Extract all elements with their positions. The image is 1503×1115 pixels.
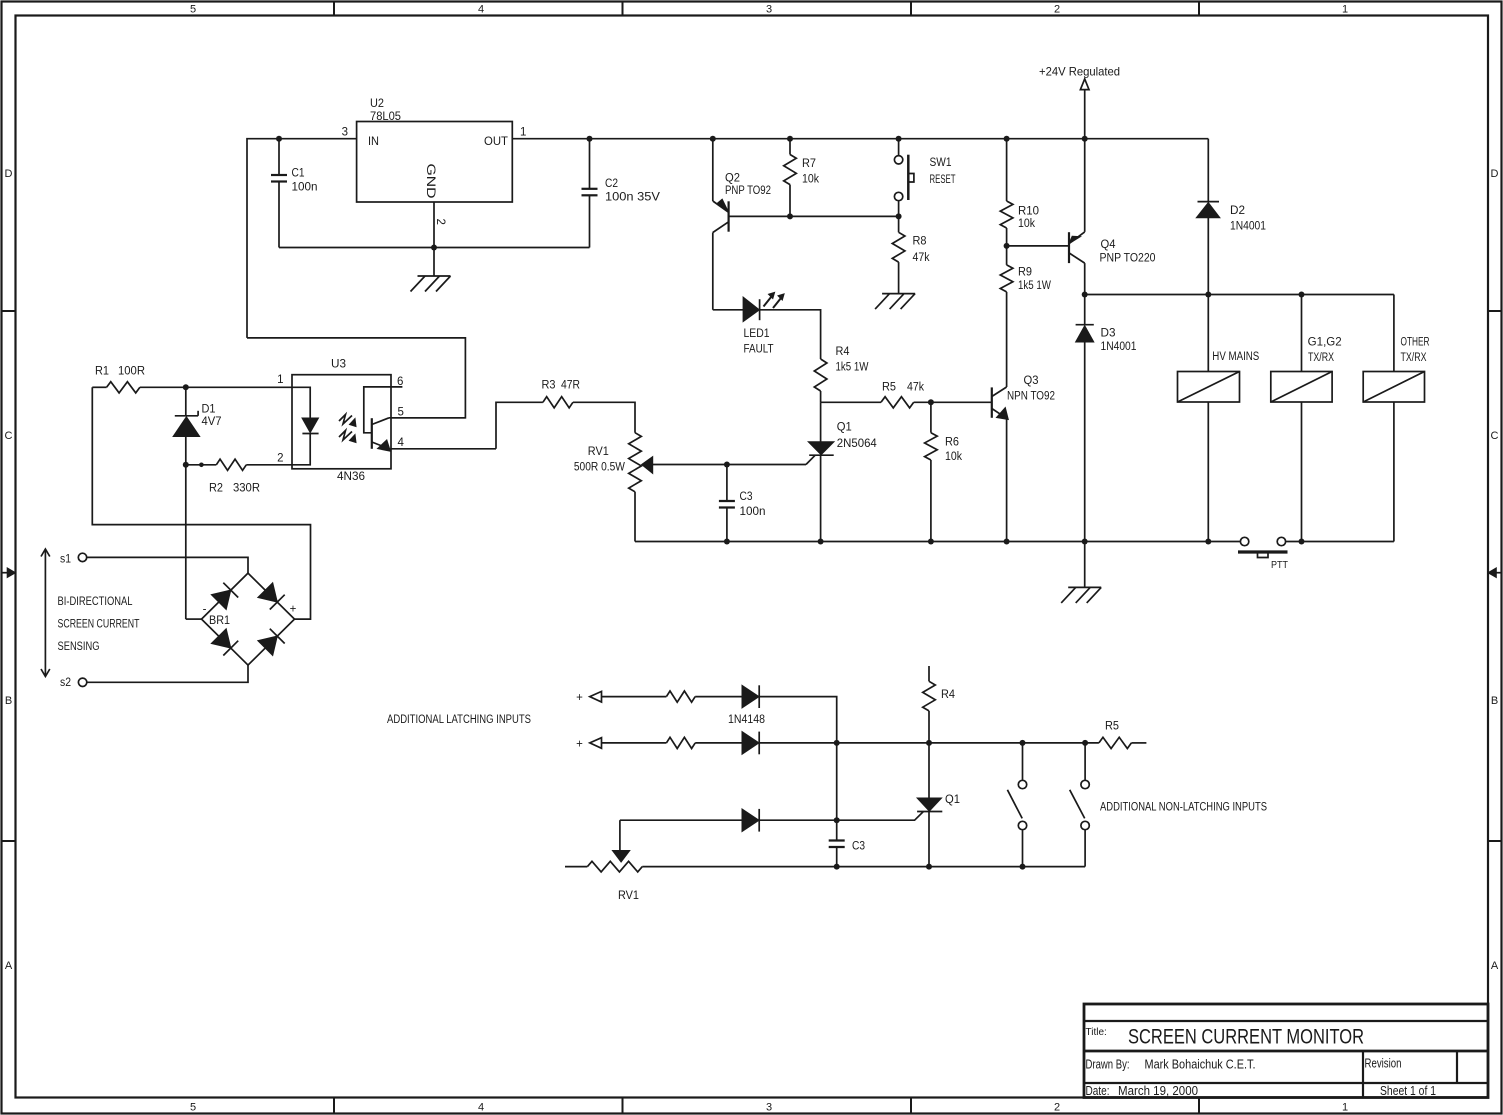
- svg-text:3: 3: [766, 4, 772, 16]
- resistor R1: [92, 386, 106, 388]
- svg-text:47k: 47k: [913, 252, 930, 264]
- svg-text:R1: R1: [95, 365, 109, 377]
- potentiometer RV1 500R: [629, 433, 642, 492]
- ground at U2: [418, 275, 451, 277]
- svg-text:R10: R10: [1018, 206, 1039, 218]
- wire bridge - to D1 line: [186, 618, 202, 620]
- junction +24V/rail: [1082, 136, 1088, 142]
- input 2 wire: [602, 742, 667, 744]
- potentiometer RV1 (latch): [565, 866, 587, 868]
- diode input 3: [742, 809, 759, 832]
- svg-text:C3: C3: [740, 491, 753, 503]
- row3 gate wire: [620, 812, 924, 821]
- frame zone dividers top: [333, 2, 335, 16]
- svg-text:s2: s2: [60, 677, 71, 689]
- svg-text:5: 5: [190, 4, 196, 16]
- svg-text:78L05: 78L05: [370, 111, 401, 123]
- diode D3 1N4001: [1076, 324, 1094, 326]
- svg-text:D: D: [5, 168, 13, 180]
- wire s1 to bridge top: [87, 557, 248, 573]
- bottom sub rail: [642, 866, 1085, 868]
- wire R5 to Q3 base: [914, 401, 992, 403]
- resistor R4 (latch): [928, 666, 930, 681]
- svg-text:3: 3: [766, 1102, 772, 1114]
- junction R10/rail: [1004, 136, 1010, 142]
- junction row3/bus: [834, 817, 840, 823]
- svg-text:RV1: RV1: [588, 446, 609, 458]
- junction R6 top: [928, 399, 934, 405]
- svg-text:A: A: [1491, 960, 1499, 972]
- junction switch1 top: [1020, 740, 1026, 746]
- svg-text:2N5064: 2N5064: [837, 438, 878, 450]
- wire Q4 collector down: [1084, 263, 1086, 325]
- svg-text:47k: 47k: [907, 382, 924, 394]
- svg-text:+: +: [290, 604, 297, 616]
- wire relay feed: [1085, 294, 1394, 296]
- junction R10/R9/Q4 base: [1004, 243, 1010, 249]
- U3 pin1 wire: [186, 386, 292, 388]
- resistor R3: [543, 397, 573, 408]
- resistor R4: [814, 359, 827, 391]
- junction dots bottom rail: [724, 539, 730, 545]
- switch PTT: [1240, 537, 1248, 545]
- resistor R6: [930, 402, 932, 432]
- bottom rail left segment: [635, 541, 1240, 543]
- relay OTHER TX/RX: [1393, 295, 1395, 372]
- svg-text:Date:: Date:: [1086, 1084, 1110, 1098]
- svg-text:s1: s1: [60, 554, 71, 566]
- vertical bus row1-row3: [836, 743, 838, 820]
- wire ground return C1-C2: [279, 247, 590, 249]
- LED1 light arrows: [764, 297, 772, 307]
- capacitor C3: [726, 465, 728, 502]
- regulator U2 box: [357, 122, 513, 203]
- svg-text:A: A: [5, 960, 13, 972]
- svg-text:Revision: Revision: [1365, 1057, 1402, 1071]
- svg-text:Sheet 1 of 1: Sheet 1 of 1: [1380, 1084, 1436, 1098]
- wire U2 OUT to rail: [512, 138, 1208, 140]
- svg-text:B: B: [1491, 695, 1498, 707]
- input 1 wire: [602, 696, 667, 698]
- diode D2 1N4001: [1207, 139, 1209, 202]
- svg-text:4V7: 4V7: [202, 416, 222, 428]
- svg-text:1k5 1W: 1k5 1W: [836, 362, 869, 374]
- svg-text:4: 4: [478, 1102, 484, 1114]
- svg-text:SCREEN CURRENT MONITOR: SCREEN CURRENT MONITOR: [1128, 1025, 1364, 1049]
- svg-text:U3: U3: [331, 359, 346, 371]
- svg-text:1N4001: 1N4001: [1230, 221, 1266, 233]
- BR1 diode lower-right: [258, 636, 278, 655]
- svg-text:10k: 10k: [802, 174, 819, 186]
- junction D3/bottom rail: [1082, 539, 1088, 545]
- junction SW1/R8/base: [896, 213, 902, 219]
- junction R7/base wire: [787, 213, 793, 219]
- wire to ground below rail: [1084, 542, 1086, 588]
- frame zone dividers right: [1488, 310, 1502, 312]
- resistor R7: [789, 139, 791, 155]
- svg-text:D2: D2: [1230, 205, 1245, 217]
- junction Q2/rail: [710, 136, 716, 142]
- svg-text:NPN TO92: NPN TO92: [1007, 390, 1055, 402]
- switch SW1 RESET: [898, 139, 900, 156]
- junction R7/rail: [787, 136, 793, 142]
- wire U2 collector feed to opto collector (pin5): [247, 338, 465, 418]
- ground at R8: [882, 293, 915, 295]
- title block: [1084, 1004, 1488, 1098]
- svg-text:R5: R5: [1105, 721, 1119, 733]
- svg-text:R4: R4: [941, 689, 956, 701]
- +24V power arrow: [1080, 79, 1089, 90]
- svg-text:RV1: RV1: [618, 890, 639, 902]
- svg-text:2: 2: [277, 453, 283, 465]
- U3 pin 5 wire: [389, 417, 465, 419]
- frame centering arrow right: [1496, 572, 1501, 574]
- svg-text:1k5 1W: 1k5 1W: [1018, 280, 1051, 292]
- svg-text:R6: R6: [945, 437, 959, 449]
- wire R1 left to bridge +: [92, 387, 310, 619]
- svg-text:PNP TO220: PNP TO220: [1100, 253, 1156, 265]
- svg-text:2: 2: [1054, 1102, 1060, 1114]
- LED LED1: [743, 297, 759, 322]
- svg-text:D3: D3: [1101, 328, 1116, 340]
- junction C3 top: [724, 462, 730, 468]
- wire row2 bus: [759, 742, 1099, 744]
- U3 phototransistor: [364, 387, 403, 433]
- svg-text:Q4: Q4: [1101, 239, 1117, 251]
- resistor R5 (latch): [1099, 737, 1132, 748]
- svg-text:330R: 330R: [233, 483, 260, 495]
- svg-text:5: 5: [190, 1102, 196, 1114]
- transistor Q4 PNP TO220: [1068, 232, 1070, 263]
- wire +9V input: corner to U2 IN: [247, 139, 357, 338]
- thyristor Q1 (latch): [917, 798, 942, 811]
- capacitor C1: [278, 139, 280, 175]
- relay G1,G2 TX/RX: [1301, 295, 1303, 372]
- svg-text:1N4001: 1N4001: [1101, 341, 1137, 353]
- svg-text:G1,G2: G1,G2: [1308, 337, 1342, 349]
- svg-text:10k: 10k: [945, 451, 962, 463]
- wire R3 to RV1 top: [573, 402, 635, 432]
- bridge rectifier BR1 outline: [202, 573, 295, 665]
- junction C1/rail: [276, 136, 282, 142]
- wire LED1 to R4: [760, 310, 821, 359]
- wire Q3 emitter down: [1006, 418, 1008, 541]
- resistor R5: [881, 397, 914, 408]
- bottom rail right segment: [1286, 541, 1394, 543]
- U3 internal LED: [292, 387, 310, 417]
- svg-text:2: 2: [434, 219, 446, 225]
- svg-text:C2: C2: [605, 178, 618, 190]
- wire Q2 base: [729, 215, 899, 217]
- wire to LED1: [713, 309, 743, 311]
- switch latch 1: [1022, 743, 1024, 780]
- BR1 diode lower-left: [211, 629, 231, 648]
- capacitor C3 (latch): [836, 820, 838, 840]
- wire Q3 collector up to R9: [1006, 292, 1008, 387]
- diode input 2: [742, 732, 759, 755]
- svg-text:SW1: SW1: [930, 157, 952, 169]
- svg-text:HV MAINS: HV MAINS: [1212, 351, 1259, 363]
- resistor R10: [1006, 139, 1008, 201]
- svg-text:10k: 10k: [1018, 218, 1035, 230]
- svg-text:Q1: Q1: [945, 794, 960, 806]
- svg-text:SENSING: SENSING: [58, 641, 100, 653]
- junction D1 top: [183, 384, 189, 390]
- svg-text:U2: U2: [370, 98, 384, 110]
- capacitor C2: [589, 139, 591, 189]
- svg-text:Q3: Q3: [1024, 375, 1039, 387]
- svg-text:Drawn By:: Drawn By:: [1086, 1058, 1130, 1072]
- svg-text:C: C: [1491, 430, 1499, 442]
- input 2 resistor: [666, 737, 695, 748]
- junction C2/rail: [587, 136, 593, 142]
- svg-text:R4: R4: [836, 346, 851, 358]
- terminal s1: [78, 553, 86, 561]
- svg-text:TX/RX: TX/RX: [1308, 352, 1334, 364]
- junction row2/bus: [834, 740, 840, 746]
- wire Q4 base: [1007, 245, 1069, 247]
- junction D2/relay feed: [1205, 292, 1211, 298]
- optocoupler U3 box: [292, 375, 391, 469]
- svg-text:5: 5: [398, 407, 404, 419]
- svg-text:BR1: BR1: [209, 615, 230, 627]
- svg-text:Q1: Q1: [837, 422, 852, 434]
- junction Q4 collector / relay feed: [1082, 292, 1088, 298]
- svg-text:R2: R2: [209, 483, 223, 495]
- junction switch2 top: [1082, 740, 1088, 746]
- transistor Q2 emitter wire: [712, 139, 714, 201]
- wire R3 net vertical to RV1: [496, 402, 543, 449]
- svg-text:4: 4: [398, 437, 405, 449]
- relay HV MAINS: [1207, 295, 1209, 372]
- svg-text:+: +: [576, 692, 583, 704]
- resistor R9: [1000, 265, 1013, 292]
- svg-text:1: 1: [1342, 4, 1348, 16]
- junction R4/row2: [926, 740, 932, 746]
- svg-text:100n: 100n: [292, 182, 318, 194]
- svg-text:Mark Bohaichuk C.E.T.: Mark Bohaichuk C.E.T.: [1145, 1058, 1256, 1072]
- frame centering arrow left: [2, 572, 8, 574]
- wire Q2 collector down: [712, 233, 714, 310]
- svg-text:LED1: LED1: [744, 328, 770, 340]
- transistor Q2 PNP TO92: [713, 201, 729, 212]
- svg-text:OUT: OUT: [484, 136, 508, 148]
- svg-text:Title:: Title:: [1086, 1027, 1107, 1038]
- junction G1G2 relay feed: [1299, 292, 1305, 298]
- zener D1 4V7: [185, 387, 187, 416]
- wire diode1 to bus: [759, 697, 837, 743]
- switch latch 2: [1084, 743, 1086, 780]
- BR1 diode upper-left: [211, 590, 231, 609]
- svg-text:-: -: [203, 604, 207, 616]
- diode input 1 1N4148: [742, 685, 759, 708]
- resistor R8: [892, 232, 905, 262]
- svg-text:Q2: Q2: [725, 173, 740, 185]
- junction D1/R2: [183, 462, 189, 468]
- U3 pin 4 wire: [391, 448, 496, 450]
- wire Q4 emitter from +24V: [1084, 139, 1086, 232]
- svg-text:R5: R5: [882, 382, 896, 394]
- svg-text:ADDITIONAL NON-LATCHING INPUTS: ADDITIONAL NON-LATCHING INPUTS: [1100, 802, 1267, 814]
- svg-text:IN: IN: [368, 136, 379, 148]
- input 1 resistor: [666, 691, 695, 702]
- wire D3 anode to bottom rail: [1084, 342, 1086, 542]
- svg-text:100n: 100n: [740, 506, 766, 518]
- wire R4/Q1 node to R5: [821, 401, 881, 403]
- svg-text:BI-DIRECTIONAL: BI-DIRECTIONAL: [58, 596, 133, 608]
- svg-text:R8: R8: [913, 236, 927, 248]
- svg-text:March 19, 2000: March 19, 2000: [1118, 1084, 1198, 1098]
- svg-text:1: 1: [277, 374, 283, 386]
- svg-text:100R: 100R: [118, 365, 145, 377]
- frame zone dividers left: [2, 310, 16, 312]
- svg-text:RESET: RESET: [930, 174, 956, 186]
- svg-text:1: 1: [520, 127, 526, 139]
- svg-text:GND: GND: [424, 164, 436, 199]
- U3 light arrows: [339, 415, 352, 425]
- svg-text:1N4148: 1N4148: [728, 714, 765, 726]
- input 1 arrow: [590, 691, 602, 702]
- BR1 diode upper-right: [258, 583, 278, 602]
- svg-text:+: +: [576, 738, 583, 750]
- svg-text:PNP TO92: PNP TO92: [725, 185, 771, 197]
- svg-text:D: D: [1491, 168, 1499, 180]
- ground at bottom rail: [1068, 586, 1101, 588]
- frame zone dividers bottom: [333, 1098, 335, 1114]
- svg-text:TX/RX: TX/RX: [1401, 352, 1427, 364]
- wire RV1 wiper to Q1 gate: [653, 464, 806, 466]
- resistor R2: [186, 464, 217, 466]
- wire s2 to bridge bottom: [87, 665, 248, 682]
- bi-directional annotation arrow: [44, 549, 46, 677]
- svg-text:ADDITIONAL LATCHING INPUTS: ADDITIONAL LATCHING INPUTS: [387, 714, 531, 726]
- svg-text:500R 0.5W: 500R 0.5W: [574, 462, 625, 474]
- transistor Q3 NPN TO92: [991, 387, 993, 417]
- input 2 arrow: [590, 738, 602, 749]
- terminal s2: [78, 678, 86, 686]
- svg-text:B: B: [5, 695, 12, 707]
- svg-text:D1: D1: [202, 404, 216, 416]
- svg-text:OTHER: OTHER: [1401, 337, 1430, 349]
- svg-text:C1: C1: [292, 168, 305, 180]
- svg-text:47R: 47R: [561, 380, 580, 392]
- svg-text:C: C: [5, 430, 13, 442]
- svg-text:4: 4: [478, 4, 484, 16]
- wire U2 GND pin down: [433, 202, 435, 276]
- junction dots sub rail: [834, 864, 840, 870]
- thyristor Q1 2N5064: [806, 455, 815, 464]
- svg-text:PTT: PTT: [1271, 559, 1288, 571]
- svg-text:6: 6: [397, 376, 403, 388]
- svg-text:SCREEN CURRENT: SCREEN CURRENT: [58, 619, 140, 631]
- wire R4 to Q1 anode: [820, 402, 822, 441]
- svg-text:4N36: 4N36: [337, 471, 365, 483]
- svg-text:3: 3: [342, 127, 348, 139]
- svg-text:1: 1: [1342, 1102, 1348, 1114]
- junction U2 gnd / return: [431, 245, 437, 251]
- svg-text:+24V Regulated: +24V Regulated: [1039, 65, 1120, 79]
- svg-text:R3: R3: [542, 380, 556, 392]
- svg-text:FAULT: FAULT: [744, 344, 774, 356]
- svg-text:100n 35V: 100n 35V: [605, 192, 660, 204]
- svg-text:R9: R9: [1018, 267, 1032, 279]
- svg-text:2: 2: [1054, 4, 1060, 16]
- svg-text:R7: R7: [802, 158, 816, 170]
- RV1 latch wiper: [619, 820, 621, 850]
- svg-text:C3: C3: [852, 841, 865, 853]
